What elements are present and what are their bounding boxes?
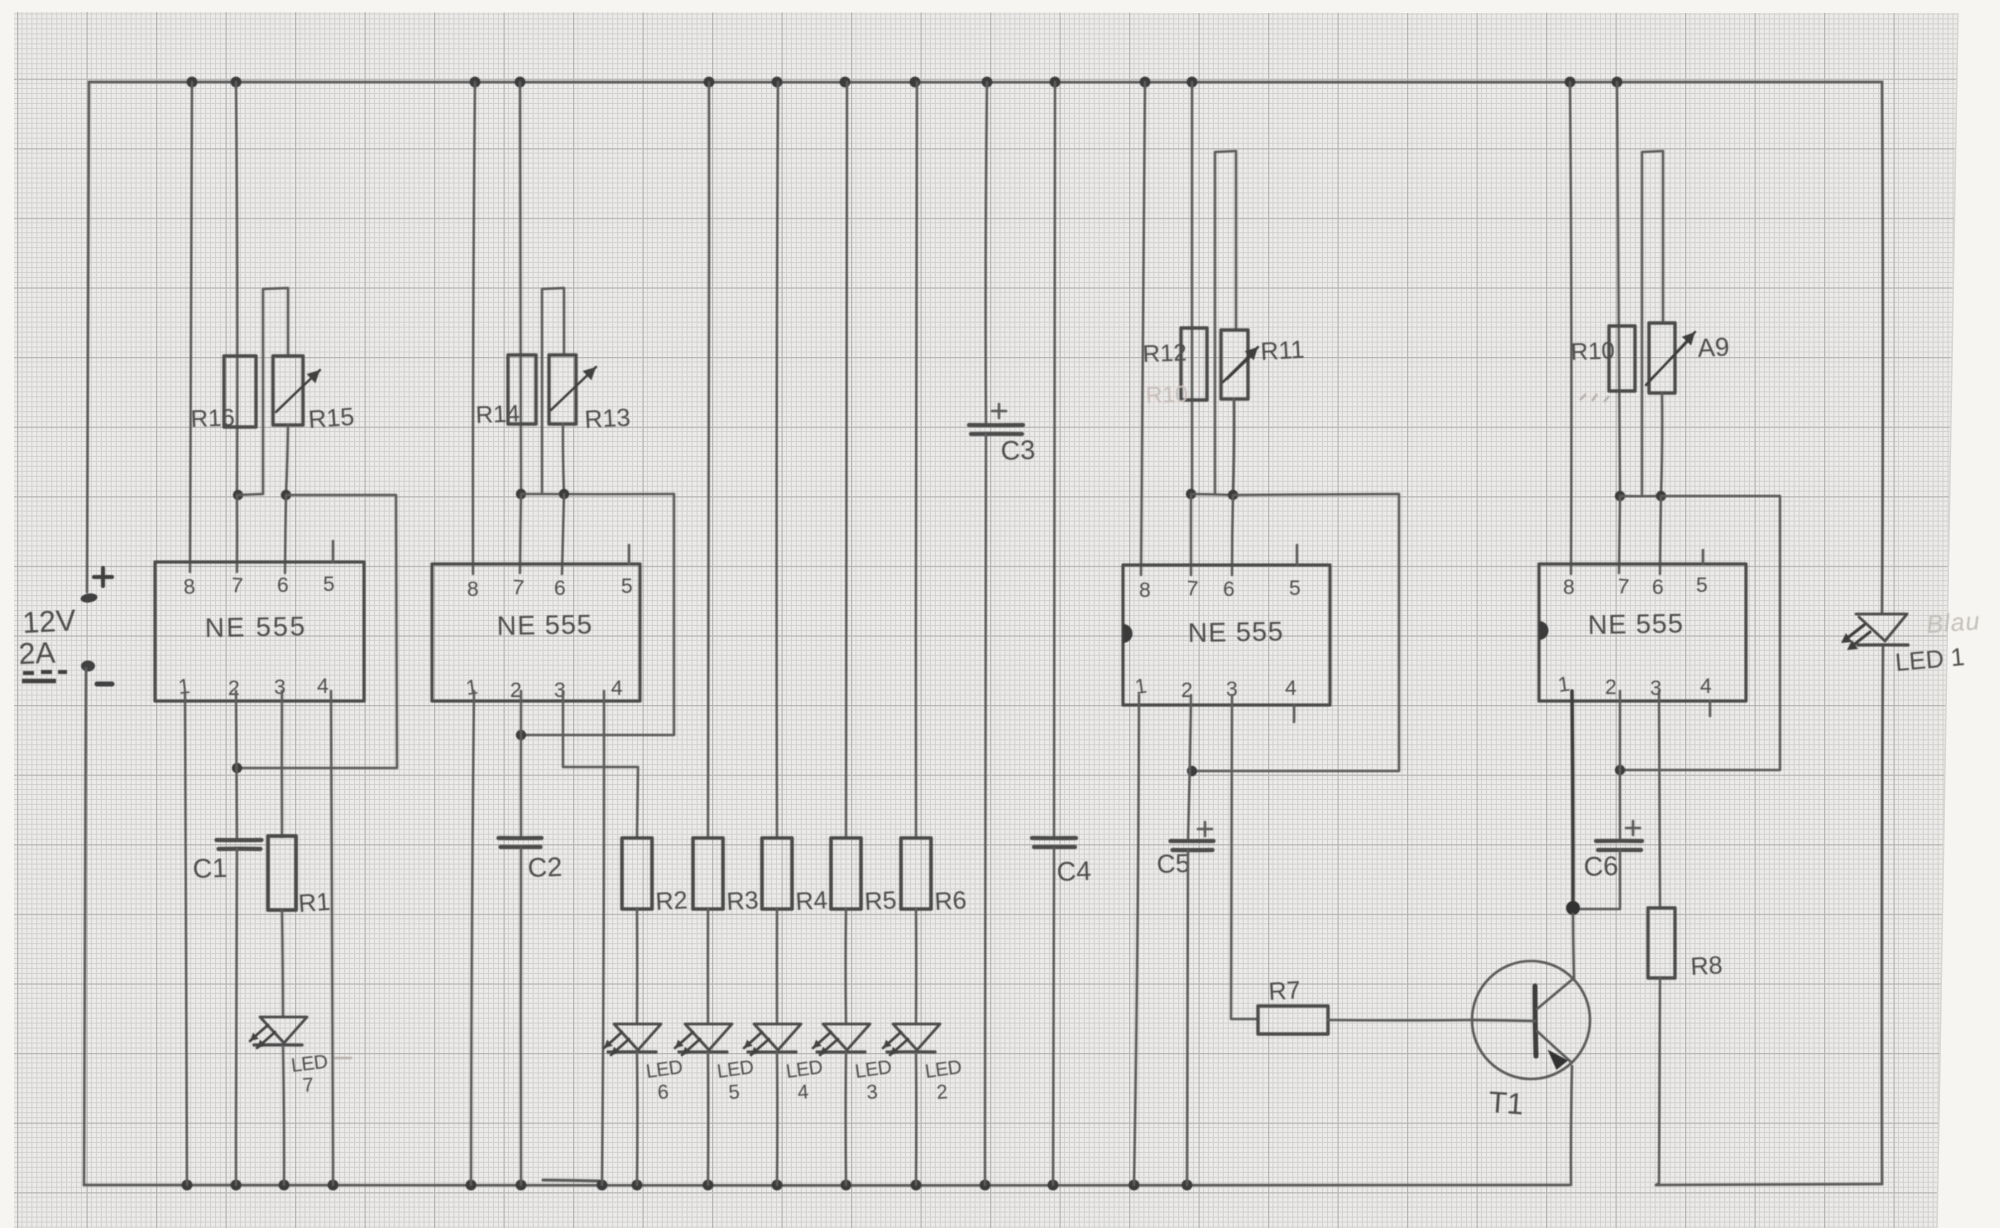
wire: U1 pin1 to 0V bus: [185, 691, 187, 1185]
wire: pin7 node to pin6 node horizontal: [521, 493, 674, 496]
svg-text:3: 3: [866, 1081, 879, 1104]
LED5 symbol: [685, 1024, 732, 1050]
capacitor C1: [217, 838, 262, 842]
wire: U3 pin2 down to C5: [1188, 695, 1191, 841]
wire: left ground feed from - terminal down to bottom bus: [84, 668, 86, 1185]
svg-text:7: 7: [231, 574, 244, 598]
wire: LED5 cathode to 0V bus: [707, 1052, 710, 1185]
node: U1 pin2/C1 junction: [232, 763, 242, 773]
node: U1 pin6 junction: [281, 490, 291, 500]
LED3 symbol: [823, 1024, 870, 1050]
junction on +12V bus at x=1192: [1187, 77, 1198, 88]
wire: U2 pin7 column from +12V bus through R14: [520, 82, 521, 494]
wire: pin6 node into U1 pin 6: [285, 495, 286, 573]
wire: R11 bottom to pin6 node: [1233, 399, 1234, 495]
junction on 0V bus at x=187: [182, 1180, 193, 1191]
wire: pin6 node into U4 pin 6: [1660, 496, 1661, 574]
wire: LED3 cathode to 0V bus: [844, 1052, 847, 1185]
wire: R5 to LED3: [844, 909, 847, 1024]
svg-text:C1: C1: [192, 853, 228, 884]
svg-text:6: 6: [1223, 578, 1235, 601]
junction on +12V bus at x=475: [470, 77, 481, 88]
svg-text:2A: 2A: [18, 637, 56, 671]
svg-text:2: 2: [228, 677, 240, 700]
junction on +12V bus at x=1145: [1140, 77, 1151, 88]
node: U3 pin6 junction: [1228, 490, 1238, 500]
IC U3 NE555 body: [1123, 565, 1330, 705]
resistor R8: [1648, 908, 1675, 978]
wire: R6 column from +12V bus: [916, 82, 917, 838]
wire: U2 pin6-pin2 tie vertical: [521, 494, 674, 735]
svg-text:R7: R7: [1268, 976, 1301, 1006]
LED6 symbol: [614, 1024, 661, 1050]
junction on 0V bus at x=916: [911, 1180, 922, 1191]
node: U4 pin2/C6 junction: [1615, 765, 1625, 775]
junction on +12V bus at x=1055: [1050, 77, 1061, 88]
svg-text:6: 6: [1652, 576, 1664, 599]
wire: LED7 cathode to 0V bus: [283, 1046, 284, 1185]
svg-text:7: 7: [302, 1074, 315, 1097]
resistor R1: [268, 836, 296, 910]
svg-text:T1: T1: [1488, 1086, 1525, 1121]
wire: U2 pin2 down to C2: [520, 691, 523, 838]
wire: R6 to LED2: [915, 909, 918, 1024]
node: R10/A9 junction (pin 7): [1615, 491, 1625, 501]
potentiometer R11 wiper arrow: [1223, 347, 1258, 382]
svg-text:5: 5: [323, 573, 335, 596]
svg-text:R13: R13: [584, 404, 631, 434]
wire: C3 column from +12V bus: [986, 82, 987, 425]
wire: pin7 node to pin6 node horizontal: [1620, 495, 1661, 498]
wire: U1 pin4 to 0V bus: [331, 691, 333, 1185]
svg-text:8: 8: [1563, 576, 1575, 599]
wire: U4 pin7 column from +12V bus through R10: [1617, 82, 1620, 496]
potentiometer R13 wiper arrow: [551, 367, 596, 410]
node: collector / C6 / U4 pin1 junction: [1566, 901, 1580, 915]
resistor R6: [901, 838, 931, 909]
svg-text:4: 4: [317, 675, 329, 698]
wire: U4 pin1 down to collector node (overdrawn dark): [1572, 691, 1573, 908]
resistor R3: [693, 838, 723, 909]
wire: C3 to 0V bus: [985, 434, 986, 1185]
wire: U1 pin2 down to C1: [236, 691, 237, 840]
wire: LED6 cathode to 0V bus: [636, 1052, 639, 1185]
wire: U3 pin8 to +12V bus: [1141, 82, 1145, 575]
svg-text:LED: LED: [290, 1051, 329, 1077]
wire: U4 pin3 down to R8: [1659, 691, 1660, 908]
faint erased mark near LED7: [332, 1057, 352, 1060]
capacitor C5 (electrolytic): [1171, 839, 1214, 843]
svg-text:R3: R3: [726, 886, 759, 916]
svg-text:R1: R1: [297, 888, 331, 918]
wire: R3 to LED5: [707, 909, 710, 1024]
svg-text:R2: R2: [655, 886, 688, 916]
svg-text:R12: R12: [1142, 339, 1187, 368]
faint erased marks under R10: [1580, 394, 1609, 402]
wire: R4 column from +12V bus: [777, 82, 778, 838]
resistor R16: [224, 356, 256, 427]
LED7 symbol: [260, 1017, 307, 1043]
+ polarity mark of C6: [1626, 821, 1640, 835]
+ polarity mark of C3: [992, 404, 1006, 418]
svg-text:NE 555: NE 555: [497, 609, 594, 641]
svg-text:6: 6: [277, 574, 289, 597]
svg-text:3: 3: [274, 676, 286, 699]
junction on +12V bus at x=915: [910, 77, 921, 88]
resistor R7: [1258, 1006, 1328, 1034]
svg-text:8: 8: [467, 578, 479, 601]
wire: U3 pin3 down to R7: [1231, 695, 1258, 1019]
svg-text:4: 4: [1700, 675, 1712, 698]
wire: +12V top supply bus: [89, 81, 1882, 84]
svg-text:C5: C5: [1156, 848, 1190, 879]
wire: collector up to C6 node: [1573, 914, 1574, 978]
LED4 symbol: [754, 1024, 801, 1050]
junction on 0V bus at x=846: [841, 1180, 852, 1191]
minus symbol (supply negative): [97, 682, 112, 687]
junction on 0V bus at x=1187: [1182, 1180, 1193, 1191]
wire: R7 to T1 base: [1328, 1019, 1472, 1022]
junction on 0V bus at x=236: [231, 1180, 242, 1191]
resistor R12: [1181, 328, 1207, 400]
wire: pin6 node into U2 pin 6: [562, 494, 564, 574]
U3 pin4 stub: [1293, 705, 1296, 722]
DC symbol (dashed over solid line): [23, 672, 67, 673]
capacitor C4: [1032, 836, 1076, 840]
wire: link pin7 node to R15 top loop: [238, 494, 263, 495]
+ symbol (supply positive): [94, 568, 112, 586]
LED1 symbol: [1856, 614, 1907, 641]
capacitor C3 (electrolytic): [969, 423, 1023, 427]
wire: R13 bottom to pin6 node: [563, 424, 564, 494]
junction on +12V bus at x=520: [515, 77, 526, 88]
wire: U2 pin4 to 0V bus: [602, 691, 604, 1185]
svg-text:2: 2: [936, 1081, 949, 1104]
U4 pin1 notch mark: [1539, 621, 1549, 640]
svg-text:NE 555: NE 555: [1588, 608, 1685, 640]
wire: C1 to 0V bus: [236, 849, 237, 1185]
node: R16/R15-top junction (pin 7): [233, 490, 243, 500]
wire: R4 to LED4: [776, 909, 779, 1024]
wire: A9 bottom to pin6 node: [1661, 393, 1662, 496]
T1 emitter arrowhead: [1546, 1049, 1568, 1070]
wire: R5 column from +12V bus: [846, 82, 847, 838]
potentiometer R15 body: [273, 356, 303, 425]
potentiometer R11 body: [1221, 330, 1248, 399]
junction on 0V bus at x=708: [703, 1180, 714, 1191]
svg-text:7: 7: [1617, 575, 1630, 599]
svg-text:R5: R5: [864, 886, 897, 916]
svg-text:R11: R11: [1260, 336, 1305, 366]
node: U2 pin6 junction: [559, 489, 569, 499]
wire: T1 base lead inside circle: [1472, 1020, 1535, 1021]
svg-text:6: 6: [657, 1081, 670, 1104]
transistor T1 circle: [1472, 961, 1590, 1079]
svg-text:6: 6: [554, 577, 566, 600]
junction on +12V bus at x=1570: [1565, 77, 1576, 88]
wire: pin7 node into U3 pin 7: [1190, 494, 1193, 575]
wire: C5 to 0V bus: [1187, 850, 1188, 1185]
IC U1 NE555 body: [155, 562, 364, 701]
wire: C6 bottom elbow to collector node: [1573, 850, 1620, 909]
wire: U2 pin1 to 0V bus: [471, 691, 474, 1185]
wire: C4 to 0V bus: [1053, 848, 1054, 1185]
svg-text:R8: R8: [1690, 951, 1723, 981]
wire: LED2 cathode to 0V bus: [915, 1052, 918, 1185]
junction on 0V bus at x=602: [597, 1180, 608, 1191]
potentiometer R13 body: [549, 355, 576, 424]
svg-text:A9: A9: [1697, 331, 1730, 363]
junction on 0V bus at x=985: [980, 1180, 991, 1191]
svg-text:C6: C6: [1583, 851, 1619, 882]
svg-text:4: 4: [611, 677, 623, 700]
junction on 0V bus at x=1134: [1129, 1180, 1140, 1191]
svg-text:5: 5: [621, 575, 633, 598]
wire: U4 pin8 to +12V bus: [1570, 82, 1571, 574]
svg-text:7: 7: [512, 576, 525, 600]
svg-text:5: 5: [1696, 574, 1708, 597]
wire: pin7 node into U1 pin 7: [236, 495, 239, 572]
svg-text:4: 4: [797, 1081, 810, 1104]
svg-text:7: 7: [1186, 577, 1199, 601]
junction on 0V bus at x=1053: [1048, 1180, 1059, 1191]
svg-text:C2: C2: [527, 852, 563, 883]
node: U4 pin6 junction: [1656, 491, 1666, 501]
svg-text:NE 555: NE 555: [1188, 616, 1285, 648]
node: R14/R13 junction (pin 7): [516, 489, 526, 499]
minus terminal dot: [81, 661, 95, 672]
wire: R15 bottom to pin6 node: [286, 425, 288, 495]
svg-text:R4: R4: [795, 886, 828, 916]
svg-text:2: 2: [1605, 676, 1617, 699]
T1 emitter lead with arrow: [1537, 1031, 1571, 1062]
svg-text:5: 5: [1289, 577, 1301, 600]
junction on 0V bus at x=521: [516, 1180, 527, 1191]
wire: U4 pin6-pin2 tie (right detour): [1620, 496, 1780, 770]
wire: A9 top terminal loop (tall): [1642, 151, 1663, 496]
svg-text:C3: C3: [1000, 435, 1036, 466]
junction on 0V bus at x=333: [328, 1180, 339, 1191]
junction on 0V bus at x=637: [632, 1180, 643, 1191]
junction on +12V bus at x=987: [982, 77, 993, 88]
resistor R14: [508, 355, 536, 424]
wire: right border lower segment (LED1 cathode to bottom bus): [1882, 645, 1883, 1184]
junction on 0V bus at x=471: [466, 1180, 477, 1191]
LED2 symbol: [893, 1024, 940, 1050]
junction on +12V bus at x=777: [772, 77, 783, 88]
IC U2 NE555 body: [432, 564, 640, 701]
wire: left +12V feed from bus down to + terminal: [87, 82, 89, 592]
svg-text:R15: R15: [307, 403, 355, 434]
wire: right border from top bus down to LED1 anode: [1881, 82, 1885, 613]
wire: 0V bottom bus (left section): [84, 1184, 1569, 1187]
wire: emitter down to 0V bus: [1571, 1066, 1572, 1185]
junction on +12V bus at x=1617: [1612, 77, 1623, 88]
wire: R2 to LED6: [636, 909, 639, 1024]
resistor R4: [762, 838, 792, 909]
capacitor C2: [499, 836, 542, 840]
potentiometer R15 wiper arrow: [276, 370, 320, 412]
svg-text:Blau: Blau: [1925, 607, 1981, 639]
wire: U2 pin8 to +12V bus: [473, 82, 475, 574]
+ polarity mark of C5: [1198, 822, 1212, 836]
svg-text:12V: 12V: [22, 604, 77, 640]
svg-text:R10: R10: [1145, 381, 1188, 408]
U1 pin5 stub: [332, 541, 335, 562]
junction on 0V bus at x=284: [279, 1180, 290, 1191]
potentiometer A9 wiper arrow (double stroke): [1646, 332, 1695, 385]
node: U2 pin2/C2 junction: [516, 730, 526, 740]
wire: pin6 node into U3 pin 6: [1232, 495, 1233, 575]
svg-text:NE 555: NE 555: [205, 611, 308, 643]
wire: pin7 node into U4 pin 7: [1619, 496, 1620, 573]
LED1 emission arrows: [1845, 625, 1864, 640]
U3 pin5 stub: [1296, 545, 1299, 565]
T1 collector lead: [1537, 978, 1574, 1009]
wire: U1 pin7 column from +12V bus through R16: [236, 82, 237, 495]
wire: C4 column from +12V bus: [1054, 82, 1055, 838]
wire: U3 pin1 to 0V bus: [1134, 695, 1139, 1185]
U3 pin1 notch mark: [1123, 624, 1133, 643]
wire: pin7 node to pin6 node horizontal: [1191, 494, 1233, 495]
svg-text:R16: R16: [190, 404, 235, 433]
U2 pin5 stub: [628, 545, 631, 564]
wire: U3 pin7 column from +12V bus through R12: [1191, 82, 1194, 494]
junction on +12V bus at x=709: [704, 77, 715, 88]
capacitor C6 (electrolytic): [1596, 839, 1642, 843]
svg-text:8: 8: [183, 575, 196, 599]
resistor R2: [622, 838, 652, 909]
svg-text:R10: R10: [1570, 337, 1615, 366]
potentiometer A9 body: [1649, 323, 1675, 393]
svg-text:C4: C4: [1056, 856, 1092, 887]
wire: U4 pin2 down to C6: [1619, 691, 1622, 841]
transistor T1 base bar: [1535, 986, 1536, 1056]
wire: pin7 node into U2 pin 7: [520, 494, 521, 573]
svg-text:4: 4: [1285, 677, 1297, 700]
junction on +12V bus at x=192: [187, 77, 198, 88]
stray overdrawn stroke above bottom bus: [543, 1180, 599, 1181]
junction on +12V bus at x=845: [840, 77, 851, 88]
IC U4 NE555 body: [1539, 564, 1746, 701]
node: R12/R11 junction (pin 7): [1186, 489, 1196, 499]
wire: LED4 cathode to 0V bus: [776, 1052, 779, 1185]
junction on 0V bus at x=777: [772, 1180, 783, 1191]
U4 pin4 stub: [1709, 701, 1712, 716]
+ terminal blob: [80, 592, 98, 603]
wire: U1 pin3 down to R1: [281, 691, 284, 837]
wire: U1 pin8 to +12V bus: [190, 82, 192, 572]
resistor R10: [1609, 326, 1635, 391]
wire: U2 pin3 detour to R2 top: [563, 691, 638, 838]
U4 pin5 stub: [1702, 550, 1705, 564]
wire: U3 pin6-pin2 tie (right detour): [1192, 494, 1399, 771]
wire: R13 top terminal loop: [542, 288, 564, 494]
svg-text:5: 5: [728, 1081, 741, 1104]
wire: 0V bottom bus (right section to right border): [1656, 1184, 1882, 1185]
wire: R15 top terminal loop (up and over): [263, 288, 288, 494]
node: U3 pin2/C5 junction: [1187, 766, 1197, 776]
wire: U1 pin6 to pin2 tie (right detour): [237, 495, 397, 768]
wire: R8 to 0V bus corner: [1656, 978, 1660, 1185]
junction on +12V bus at x=236: [231, 77, 242, 88]
wire: R3 column from +12V bus: [708, 82, 709, 838]
wire: R1 to LED7: [282, 910, 283, 1017]
wire: R11 top terminal loop (tall): [1215, 151, 1236, 494]
resistor R5: [831, 838, 861, 909]
svg-text:R14: R14: [475, 400, 520, 429]
wire: C2 to 0V bus: [520, 848, 523, 1185]
svg-text:8: 8: [1139, 579, 1151, 602]
svg-text:R6: R6: [934, 886, 967, 916]
